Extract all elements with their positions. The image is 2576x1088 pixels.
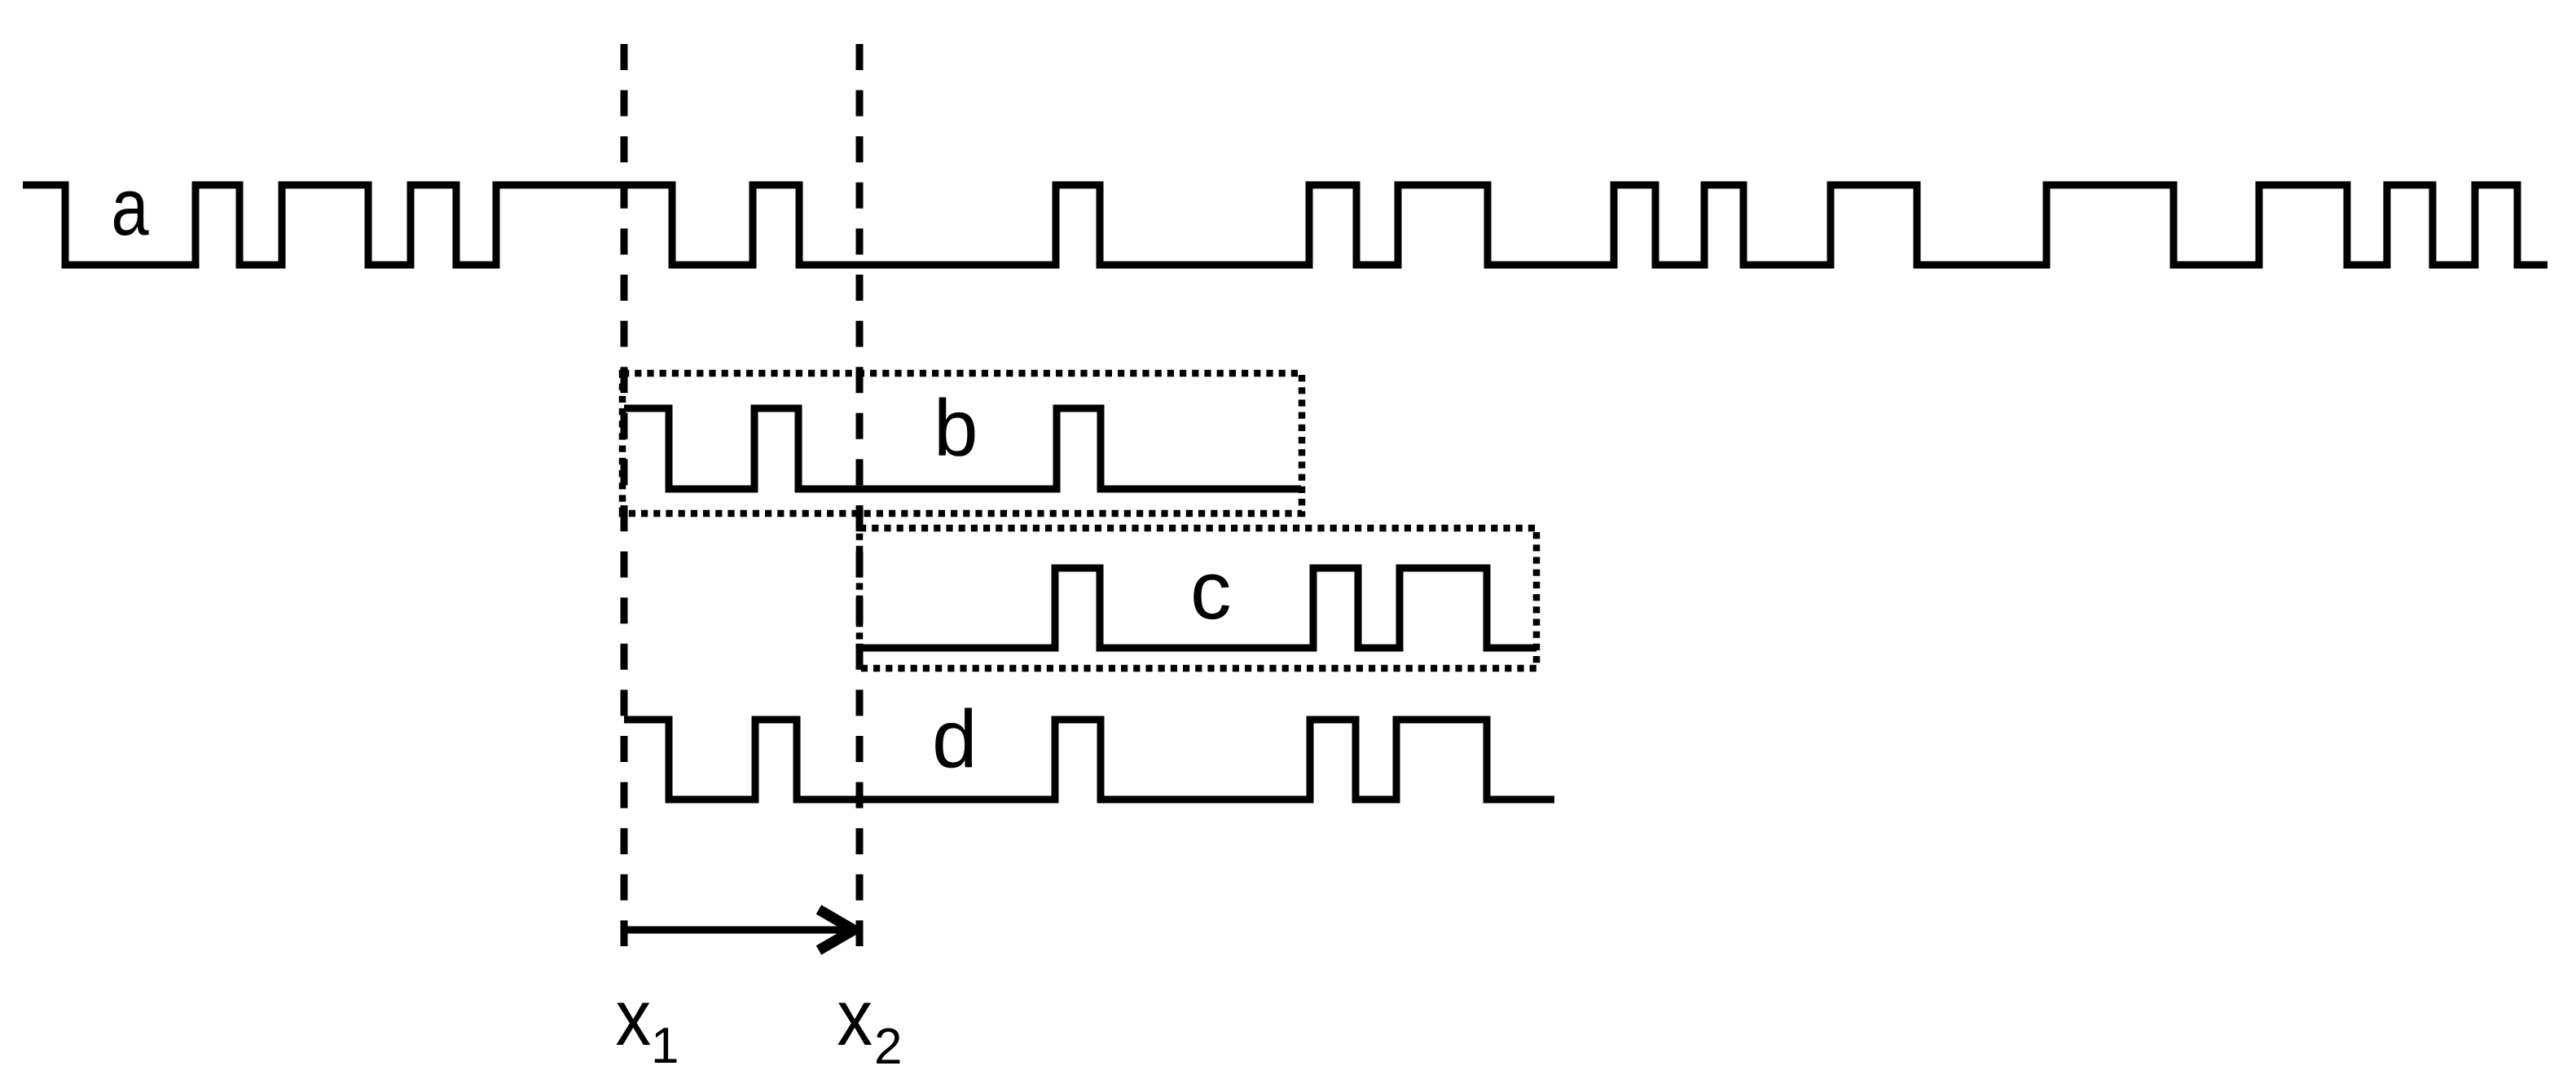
- wire: waveform d (copy of a starting at x1): [624, 720, 1554, 799]
- wire: waveform c (copy of a starting at x2): [859, 568, 1536, 648]
- svg-text:d: d: [932, 694, 978, 785]
- svg-text:a: a: [111, 162, 148, 252]
- arrowhead pointing right at x2: [819, 910, 854, 950]
- wire: arrow shaft from x1 to x2: [624, 927, 845, 934]
- node x1: vertical dashed cursor line at x1: [621, 44, 628, 946]
- dotted selection box around waveform c: [859, 528, 1536, 668]
- svg-text:1: 1: [651, 1018, 679, 1074]
- wire: waveform b (copy of a starting at x1): [624, 408, 1301, 489]
- node x2: vertical dashed cursor line at x2: [856, 44, 864, 946]
- svg-text:2: 2: [874, 1019, 902, 1075]
- svg-text:x: x: [837, 973, 873, 1062]
- svg-text:c: c: [1190, 545, 1232, 637]
- wire: waveform a (full-width pseudo-random binary signal): [23, 185, 2547, 265]
- svg-text:b: b: [934, 383, 978, 473]
- svg-text:x: x: [615, 973, 651, 1062]
- dotted selection box around waveform b: [622, 373, 1302, 513]
